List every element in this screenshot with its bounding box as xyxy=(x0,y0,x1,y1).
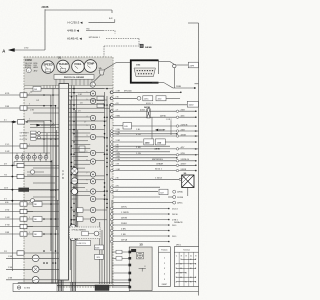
box inside optical group xyxy=(82,231,88,236)
box 3/47 xyxy=(159,189,168,195)
wire in optical group xyxy=(88,233,94,235)
pin 4 row1 of 19/3 xyxy=(144,70,145,71)
resistor symbol R2 xyxy=(70,234,76,240)
pin box divider 4 RD xyxy=(23,93,25,97)
bulb B1 xyxy=(15,153,19,162)
warning lamp L7 xyxy=(90,159,95,164)
wire row y=151.8 xyxy=(111,151,171,154)
terminal header rule xyxy=(174,251,198,253)
connector 19/3 housing (thick outline) xyxy=(131,60,159,82)
wire SW2 to CPB xyxy=(36,135,59,137)
pin marker 6 of 3/3 xyxy=(129,286,131,288)
pin 13 row2 of 19/3 xyxy=(151,73,152,74)
bulb B5 xyxy=(38,153,42,162)
terminal circle 24F4A xyxy=(173,190,176,193)
wire from 24F box xyxy=(41,88,59,90)
driver box E2 xyxy=(77,217,83,222)
right border (harness run) xyxy=(198,23,200,247)
switch contact on row 125 xyxy=(50,124,54,127)
dashed wire to 24F4B xyxy=(106,38,139,40)
bulb B6 xyxy=(44,153,48,162)
terminal circle y=165.3 xyxy=(176,164,178,166)
wire into 3/3 y=258.3 xyxy=(112,257,129,259)
table Position box xyxy=(159,247,171,287)
wire row y=136 xyxy=(111,135,196,138)
component box mid y=234 xyxy=(33,232,42,237)
warning lamp LL2 xyxy=(90,207,95,212)
driver box D1 xyxy=(97,96,104,100)
harness stub 4 R y=165.5 xyxy=(0,163,17,165)
pin marker 3 of 3/3 xyxy=(129,264,131,266)
stub to circle 172 xyxy=(27,171,30,173)
component box 24F top left xyxy=(33,87,41,92)
module CPB (tall box) xyxy=(59,84,69,281)
protocol driver feed x=72 xyxy=(71,79,73,85)
junction after pin box xyxy=(26,121,28,123)
wire E1 to lamp xyxy=(83,209,90,211)
component box near CPU xyxy=(79,146,85,152)
wire H C/30:3 xyxy=(89,21,115,23)
warning lamp L10 xyxy=(90,189,95,194)
terminal circle E xyxy=(137,96,141,100)
interior wire rows right of CPB (upper, sparse) xyxy=(69,89,110,130)
wire row y=170.6 xyxy=(111,169,196,172)
terminal y=208.5 xyxy=(168,208,170,210)
wire row y=133.8 xyxy=(111,133,177,136)
warning lamp L3 xyxy=(90,115,95,120)
wire from sender S3 to CPB xyxy=(39,279,59,281)
wire row y=148.9 xyxy=(111,148,196,151)
wire to sender S2 xyxy=(6,268,32,270)
connector 3/3 keying circle xyxy=(137,252,144,259)
wire bulb return down xyxy=(13,162,15,167)
pin circle right edge y=92.3 xyxy=(110,91,113,94)
extra border ticks xyxy=(195,131,199,155)
terminal y=165.3 xyxy=(195,165,197,167)
wire from circle 172 xyxy=(35,171,44,173)
protocol driver feed x=92 xyxy=(91,79,93,85)
wire to border connector 24F9 xyxy=(176,64,188,66)
pin box 4 BL xyxy=(20,202,27,206)
pin box 2 RD xyxy=(20,209,27,213)
connector 3/3 tee mark xyxy=(139,267,146,269)
connector 19/3 pin block xyxy=(134,68,155,77)
terminal y=148.9 xyxy=(195,148,197,150)
wire row y=98.3 xyxy=(111,97,138,100)
vertical wire x=171 xyxy=(170,120,172,135)
connector 19/3 right edge xyxy=(158,60,160,74)
lamp symbol below WA xyxy=(90,82,95,87)
bus wire x=50.9 xyxy=(50,95,52,251)
cluster header feed x=47 xyxy=(46,85,48,88)
terminal y=92.3 xyxy=(180,92,182,94)
warning lamp L4 xyxy=(90,124,95,129)
wire 121.9 into cluster xyxy=(25,121,45,123)
CPB bottom wire bundle xyxy=(59,280,76,291)
bus wire x=71.5 xyxy=(71,85,73,282)
box BULB FAIL xyxy=(95,245,104,250)
inline connector 24F9B (vertical hatched) xyxy=(147,109,150,118)
bottom bus wires xyxy=(18,282,130,284)
protocol driver feed x=76 xyxy=(75,79,77,85)
box LOW COOLANT xyxy=(76,240,91,245)
stub to dark block xyxy=(0,189,19,191)
splice box y=252 xyxy=(116,250,122,254)
cluster header shading xyxy=(24,57,112,85)
wire row y=146.2 xyxy=(111,145,171,148)
terminal y=230.5 xyxy=(168,230,170,232)
protocol driver feed x=56 xyxy=(55,79,57,85)
pin circle right edge y=117.2 xyxy=(110,116,113,119)
wire row y=142 xyxy=(111,141,143,144)
wire from 19/3 bottom to border (25/8B) xyxy=(152,82,164,84)
pin marker 1 of 3/3 xyxy=(129,251,131,253)
warning lamp L9 xyxy=(90,179,95,184)
wire to sender S1 xyxy=(6,257,32,259)
pin box 121.9 xyxy=(18,120,25,124)
cluster sub-header line xyxy=(24,88,113,90)
position header rule xyxy=(159,251,171,253)
wire from box y=234 xyxy=(42,233,59,235)
wire row y=165.3 xyxy=(111,164,196,167)
pin box 1 GN xyxy=(20,217,27,221)
wire through y=211.5 xyxy=(27,211,59,213)
wire horizontal to A arrow xyxy=(14,49,45,51)
connector WA (trapezoid) xyxy=(99,70,104,75)
wire 4 BL into cluster xyxy=(27,203,33,205)
bus wire x=70.2 xyxy=(69,100,71,270)
terminal circle y=117.2 xyxy=(176,116,178,118)
sender S2 xyxy=(32,266,39,273)
cluster header feed x=53 xyxy=(52,85,54,88)
wire down from terminal 23/4B xyxy=(173,68,175,88)
bus wire x=56.6 xyxy=(56,130,58,230)
tiny pin number labels xyxy=(29,92,88,234)
terminal y=236 xyxy=(168,235,170,237)
wire row y=230.5 xyxy=(111,229,169,232)
terminal circle 25/28B xyxy=(173,196,176,199)
wire into 3/3 y=287 xyxy=(112,286,129,288)
component circle y=172 xyxy=(30,170,34,174)
boxes 24/3C 4/5D xyxy=(143,96,153,101)
dashed wire down xyxy=(138,39,140,45)
junction dots left of CPB xyxy=(43,94,56,264)
warning lamp LL1 xyxy=(90,196,95,201)
pin box 1 BN xyxy=(20,232,27,236)
wire y=124.4 xyxy=(30,123,59,125)
gauge FUEL xyxy=(72,60,85,73)
clock symbol C xyxy=(26,68,31,73)
wire from LMD to border xyxy=(165,141,195,143)
arrow A (off-page connector) xyxy=(9,48,15,51)
arrow marker on row 125 xyxy=(37,124,40,126)
gauge TEMP xyxy=(84,60,97,73)
wire row y=225 xyxy=(111,224,169,227)
terminal y=214 xyxy=(168,213,170,215)
warning lamp L5 xyxy=(90,134,95,139)
wire 253 into cluster xyxy=(24,252,59,254)
terminal y=219.5 xyxy=(168,219,170,221)
pin 1 row1 of 19/3 xyxy=(137,70,138,71)
wire into 3/3 y=280 xyxy=(112,279,129,281)
wire row y=241.5 xyxy=(111,240,169,243)
pin box 2 BN xyxy=(20,106,27,110)
wire from 19/3 to terminal circle xyxy=(159,61,171,63)
terminal circle y=148.9 xyxy=(176,148,178,150)
harness stub 7 B y=176.5 xyxy=(0,174,17,176)
arrow marker on 121.9 row xyxy=(13,121,16,123)
pin box divider 1 GN xyxy=(23,217,25,221)
wire row y=154.8 xyxy=(111,154,196,157)
pin 9 row2 of 19/3 xyxy=(141,73,142,74)
pin box 176.5 xyxy=(17,174,24,178)
pin marker 4 of 3/3 xyxy=(129,272,131,274)
box PROTOCOL DRIVER xyxy=(54,75,94,80)
wire to sender S3 xyxy=(6,279,32,281)
pin box divider 3 YW xyxy=(23,224,25,228)
interior wire rows left of CPB xyxy=(27,95,59,197)
lamp inside optical group xyxy=(94,231,99,236)
wire from sender S2 to CPB xyxy=(39,268,59,270)
wire 2 BN into cluster xyxy=(27,107,59,109)
table Terminal box xyxy=(174,247,198,287)
dashed hook down xyxy=(114,31,116,34)
wire 4 RD into cluster xyxy=(27,94,59,96)
right border below table xyxy=(198,287,200,296)
switch box SW3 xyxy=(31,138,37,141)
wire 3 YW into cluster xyxy=(27,226,33,228)
box SPD xyxy=(123,123,132,130)
dark component block y=190 xyxy=(19,188,29,192)
wire 176.5 into cluster xyxy=(24,176,59,178)
pin 5 row1 of 19/3 xyxy=(147,70,148,71)
terminal y=225 xyxy=(168,224,170,226)
box SRS xyxy=(95,255,104,260)
terminal y=131 xyxy=(195,130,197,132)
pin marker 2 of 3/3 xyxy=(129,257,131,259)
bottom edge line xyxy=(130,291,198,293)
lamp feed wires lower xyxy=(72,199,108,220)
wire WA down to lamp xyxy=(93,75,100,82)
wire row y=214 xyxy=(111,213,169,216)
junction left bus 200.7 xyxy=(12,200,14,202)
gauge driver symbol G2 xyxy=(71,178,77,184)
wire into 3/3 y=252 xyxy=(112,251,129,253)
terminal circle y=136 xyxy=(176,135,178,137)
border top segment xyxy=(188,22,199,24)
wire row y=117.2 xyxy=(111,116,196,119)
harness stub 2 BN y=108 xyxy=(0,106,20,108)
pin box divider 1 VO xyxy=(23,144,25,148)
wire into 3/3 y=265 xyxy=(112,264,129,266)
pin box 3 YW xyxy=(20,224,27,228)
protocol driver feed x=80 xyxy=(79,79,81,85)
warning lamp LL3 xyxy=(90,217,95,222)
harness stub y=200.7 xyxy=(0,199,30,201)
resistor symbol R1 xyxy=(70,224,76,230)
terminal circle y=111.2 xyxy=(176,110,178,112)
wire row y=131 xyxy=(111,130,196,133)
protocol driver feed x=64 xyxy=(63,79,65,85)
gauge SPEED xyxy=(42,61,55,74)
wire from sender S1 to CPB xyxy=(39,257,59,259)
legend box bottom left xyxy=(13,284,57,292)
wire end tick down xyxy=(111,10,113,13)
wire vertical from node 24F2B down to A-arrow line xyxy=(44,9,46,50)
driver box D2 xyxy=(97,103,104,107)
gauge driver symbol G1 xyxy=(71,168,78,175)
boxes 24/2D LMD xyxy=(144,139,154,145)
protocol driver feed x=88 xyxy=(87,79,89,85)
clock set button 1 xyxy=(38,132,41,135)
pin circle right edge y=111.2 xyxy=(110,110,113,113)
component circle y=200.7 xyxy=(30,199,34,203)
dashed wire to connector 24F4B xyxy=(104,45,139,47)
junction left bus 165.5 xyxy=(12,165,14,167)
wire E2 to lamp xyxy=(83,218,90,220)
tick 25/8B on border xyxy=(195,83,199,85)
wire row y=191.7 xyxy=(111,190,159,193)
left bus wire x=12.4 xyxy=(11,122,13,271)
pin 10 row2 of 19/3 xyxy=(143,73,144,74)
protocol driver feed x=84 xyxy=(83,79,85,85)
harness stub 1 BN y=234 xyxy=(0,232,20,234)
terminal y=241.5 xyxy=(168,241,170,243)
bus wire x=55.4 xyxy=(54,106,56,284)
sender S1 xyxy=(32,255,39,262)
gauge TACHO xyxy=(57,60,70,73)
protocol driver feed x=60 xyxy=(59,79,61,85)
dashed wire 4/4B xyxy=(103,30,115,32)
wire row y=202.6 xyxy=(113,202,173,204)
splice box y=258.3 xyxy=(116,257,122,261)
wire y=127.4 xyxy=(30,126,59,128)
junction on left bus xyxy=(12,121,14,123)
wire into connector 19/3 xyxy=(117,61,132,63)
pin circle right edge y=98.3 xyxy=(110,97,113,100)
wire row y=160.8 xyxy=(111,160,196,163)
harness stub 3 GN y=121.9 xyxy=(0,120,13,122)
switch box SW1 xyxy=(31,131,37,134)
bus wire x=102 xyxy=(101,230,103,284)
warning lamp L6 xyxy=(90,150,95,155)
bus wire x=77.8 xyxy=(77,130,79,240)
cluster header divider xyxy=(24,84,113,86)
pin 11 row2 of 19/3 xyxy=(146,73,147,74)
warning lamp L8 xyxy=(90,172,95,177)
bus wire x=74 xyxy=(73,85,75,282)
wire from node 24F2B to the right xyxy=(45,9,112,11)
wire row y=197 xyxy=(113,196,160,198)
wire 1 GN into cluster xyxy=(27,218,33,220)
relay 3/6 (crossed box) xyxy=(182,175,194,188)
cluster header feed x=44 xyxy=(43,85,45,88)
cluster header feed x=55.5 xyxy=(55,85,57,88)
pin 12 row2 of 19/3 xyxy=(148,73,149,74)
bus wire x=76.5 xyxy=(76,95,78,240)
vertical wire x=152 xyxy=(151,117,153,142)
instrument cluster 3/1 outline xyxy=(24,57,113,287)
connector 24F9 on border xyxy=(188,62,198,68)
interior wire rows right of CPB (lamp feeds) xyxy=(72,133,105,195)
terminal y=160.8 xyxy=(195,160,197,162)
terminal circle 23/4B xyxy=(173,64,176,67)
junction left bus 189.7 xyxy=(12,189,14,191)
bulb B4 xyxy=(33,153,37,162)
switch box SW2 xyxy=(31,134,37,137)
wire row y=208.5 xyxy=(111,207,169,210)
component box mid y=219 xyxy=(33,217,42,222)
wire from circle 200.7 xyxy=(35,200,59,202)
harness stub 2 RD y=211.5 xyxy=(0,209,20,211)
terminal X marks and links xyxy=(176,258,197,283)
junction left bus 176.5 xyxy=(12,176,14,178)
terminal circle y=131 xyxy=(176,130,178,132)
terminal y=142 xyxy=(195,141,197,143)
warning lamp L2 xyxy=(90,98,95,103)
wire bend xyxy=(170,62,174,65)
wire row y=92.3 xyxy=(111,91,181,94)
wire to 25/28B terminal xyxy=(168,196,173,198)
wire into SPD box xyxy=(113,125,123,127)
bus wire x=99.8 xyxy=(99,222,101,284)
pin 2 row1 of 19/3 xyxy=(139,70,140,71)
pin box divider 2 RD xyxy=(23,209,25,213)
harness stub 3 YW y=226.5 xyxy=(0,224,20,226)
clock set button 2 xyxy=(38,136,41,139)
wire bulb row return xyxy=(14,161,50,163)
wire hook up xyxy=(114,19,116,22)
junction at border 25/8B xyxy=(194,87,196,89)
sender S3 xyxy=(32,276,39,283)
terminal y=133.8 xyxy=(176,133,178,135)
terminal circle y=126 xyxy=(176,125,178,127)
connector 34/22 on border xyxy=(187,101,198,107)
cluster header feed x=50 xyxy=(49,85,51,88)
terminal y=117.2 xyxy=(195,116,197,118)
dashed wire down to cluster xyxy=(103,46,105,57)
wire row y=236 xyxy=(111,235,169,238)
pin box divider 4 BL xyxy=(23,202,25,206)
pin 8 row2 of 19/3 xyxy=(138,73,139,74)
bus wire x=53 xyxy=(52,88,54,284)
harness stub 1 VO y=146 xyxy=(0,144,20,146)
wire 2 RD into cluster xyxy=(27,211,33,213)
wire row y=126 xyxy=(132,125,196,127)
wire row y=111.2 xyxy=(111,110,196,113)
pin 3 row1 of 19/3 xyxy=(142,70,143,71)
terminal y=111.2 xyxy=(195,110,197,112)
bus wire x=47 xyxy=(46,133,48,157)
bus wire x=109.5 xyxy=(109,104,111,284)
pin box divider 2 BN xyxy=(23,106,25,110)
bus wire x=104.5 xyxy=(104,92,106,284)
connector icon 24F4B xyxy=(140,44,143,47)
terminal y=170.6 xyxy=(195,170,197,172)
terminal circle y=170.6 xyxy=(176,169,178,171)
paper noise overlay xyxy=(0,0,207,300)
terminal y=157.8 xyxy=(176,157,178,159)
pin 6 row1 of 19/3 xyxy=(149,70,150,71)
connector 3/3 (shaded) xyxy=(129,247,152,291)
wire from dark block xyxy=(29,189,59,191)
terminal circle y=160.8 xyxy=(176,160,178,162)
bus wire x=57.5 xyxy=(57,200,59,284)
pin marker 5 of 3/3 xyxy=(129,279,131,281)
bus wire x=44 xyxy=(43,121,45,153)
terminal y=126 xyxy=(195,125,197,127)
pin box 165.5 xyxy=(17,163,24,167)
